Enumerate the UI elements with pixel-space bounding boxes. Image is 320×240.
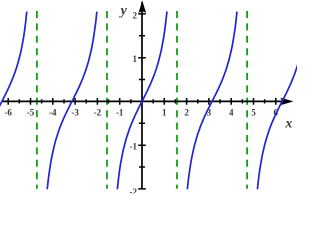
svg-text:y: y [119,3,128,18]
svg-text:-5: -5 [27,107,35,117]
y-axis arrowhead [139,1,147,14]
y-axis line [141,2,143,188]
svg-text:2: 2 [133,10,138,20]
svg-text:-2: -2 [130,187,138,194]
x-axis ticks [8,98,276,105]
tan curve branch at x=-π (blue) [47,12,97,188]
svg-text:-3: -3 [71,107,79,117]
svg-text:-1: -1 [116,107,124,117]
asymptote x = -3π/2 (green dashed) [36,11,38,189]
tan curve branch at x=π (blue) [187,12,237,188]
svg-text:-6: -6 [4,107,12,117]
x-axis line [2,100,283,102]
svg-text:-4: -4 [49,107,57,117]
y-axis ticks [138,14,146,189]
tan curve central branch (blue) [117,12,166,188]
svg-text:1: 1 [162,107,167,117]
svg-text:-1: -1 [130,142,138,152]
svg-text:x: x [284,117,292,132]
asymptote x = π/2 (green dashed) [176,11,178,189]
asymptote x = -π/2 (green dashed) [106,11,108,189]
svg-text:-2: -2 [94,107,102,117]
x-axis arrowhead [280,98,293,106]
svg-text:5: 5 [251,107,256,117]
tan curve branch at x=-2π (blue) [0,12,27,188]
svg-text:4: 4 [229,107,234,117]
tan curve branch at x=2π (blue) [258,12,308,188]
asymptote x = 3π/2 (green dashed) [246,11,248,189]
svg-text:1: 1 [133,54,138,64]
svg-text:2: 2 [184,107,189,117]
